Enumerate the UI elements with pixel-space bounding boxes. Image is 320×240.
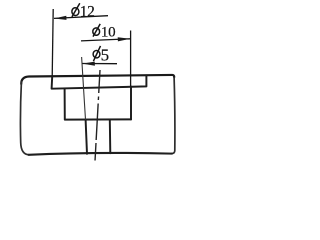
svg-text:10: 10 (101, 24, 115, 40)
svg-text:12: 12 (80, 3, 95, 20)
svg-text:5: 5 (101, 45, 110, 64)
